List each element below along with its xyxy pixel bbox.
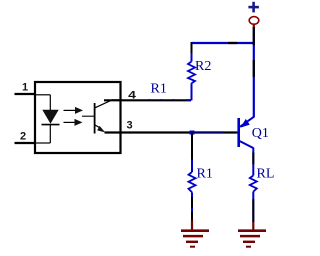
node junction pin3/R1	[190, 131, 195, 135]
svg-text:Q1: Q1	[252, 126, 269, 141]
LED D1 triangle	[43, 110, 58, 123]
resistor RL bottom stem	[252, 192, 254, 223]
supply terminal circle	[249, 17, 259, 25]
resistor R1 (pulldown) bottom stem	[191, 192, 193, 220]
resistor R1 (pulldown) top stem	[191, 133, 193, 173]
resistor RL top stem	[252, 148, 254, 176]
optocoupler U1 body	[35, 82, 121, 153]
svg-text:R2: R2	[195, 59, 211, 74]
transistor Q1 emitter arrowhead	[241, 119, 250, 128]
pin 1 wire	[15, 93, 51, 96]
LED D1 cathode bar	[42, 124, 60, 126]
ground right stub	[252, 222, 254, 231]
phototransistor emitter lead	[95, 125, 101, 128]
phototransistor emitter arrowhead	[97, 126, 105, 132]
svg-text:3: 3	[127, 120, 133, 132]
phototransistor base bar	[94, 103, 96, 134]
wire top rail horizontal	[192, 42, 255, 44]
pin 4 wire	[104, 99, 192, 102]
ground left stub	[191, 221, 193, 231]
wire supply vertical	[253, 27, 255, 118]
light arrow 2	[64, 119, 83, 126]
svg-text:R1: R1	[197, 167, 213, 182]
LED D1 cathode stem	[49, 125, 51, 143]
pin 2 wire	[15, 142, 51, 144]
svg-text:RL: RL	[257, 167, 275, 182]
phototransistor base lead	[82, 115, 94, 117]
pin 3 wire	[105, 131, 240, 134]
svg-text:R1: R1	[151, 82, 167, 97]
LED D1 anode stem	[49, 95, 51, 111]
transistor Q1 collector lead	[240, 141, 254, 148]
svg-text:1: 1	[22, 82, 28, 94]
transistor Q1 base bar	[237, 118, 240, 147]
supply terminal stub	[253, 24, 255, 27]
resistor RL zigzag	[250, 176, 257, 192]
resistor R2 zigzag	[188, 62, 195, 84]
ground left	[181, 231, 209, 247]
svg-text:2: 2	[20, 131, 26, 143]
transistor Q1 emitter lead	[240, 117, 254, 127]
phototransistor collector lead	[95, 100, 121, 108]
supply + symbol	[248, 2, 259, 13]
ground right	[238, 231, 266, 247]
light arrow 1	[64, 107, 84, 114]
resistor R1 (pulldown) zigzag	[189, 172, 196, 192]
resistor R2 bottom stem	[191, 83, 193, 100]
resistor R2 top stem	[191, 42, 193, 62]
